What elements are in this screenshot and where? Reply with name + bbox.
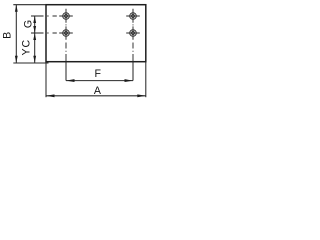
svg-text:YC: YC	[20, 39, 32, 56]
svg-text:G: G	[22, 20, 34, 28]
svg-text:F: F	[95, 68, 102, 80]
svg-text:A: A	[94, 85, 102, 97]
svg-text:B: B	[1, 32, 13, 39]
